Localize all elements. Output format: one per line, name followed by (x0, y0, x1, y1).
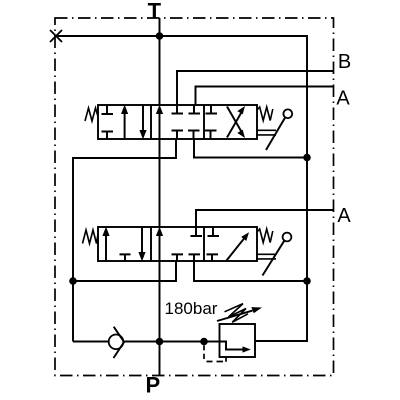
wire bottom line to check valve (73, 341, 109, 343)
wire port B (177, 71, 334, 105)
valve V2 box2 open-center up arrow (156, 227, 163, 261)
svg-text:180bar: 180bar (165, 299, 218, 318)
svg-text:B: B (338, 51, 351, 73)
wire check valve to relief inlet (124, 341, 220, 343)
relief valve RV1 body (220, 324, 256, 357)
valve V1 lever bracket (256, 130, 276, 135)
valve V1 box1 blocked port top (102, 105, 114, 114)
valve V1 spring left (85, 108, 98, 121)
plugged port X symbol on border (50, 30, 62, 42)
valve V2 box3 blocked port bottom (207, 254, 219, 261)
valve V2 box1 blocked port bottom (120, 254, 131, 261)
wire T header to X and right gallery (56, 36, 307, 341)
valve V2 lever (263, 233, 292, 276)
valve V2 box1 down arrow (138, 227, 145, 261)
valve V2 box2 blocked ports bottom (172, 254, 201, 261)
junction dot supply bottom (156, 338, 164, 346)
enclosure border (dash-dot) (55, 18, 334, 376)
valve V2 box1 up arrow (102, 227, 109, 261)
valve V1 box2 open-center up arrow (156, 105, 163, 139)
junction dot right gallery upper (303, 154, 311, 162)
relief valve pilot line (dashed) (204, 345, 226, 362)
valve V1 box3 crossed arrows (227, 106, 245, 138)
wire supply V2 down to P (159, 261, 161, 376)
valve V2 body (98, 227, 257, 261)
relief valve internal arrow (220, 342, 251, 353)
valve V2 box3 diagonal arrow (227, 232, 250, 260)
wire V1 bottom right to gallery (194, 139, 307, 158)
valve V1 box3 blocked port bottom (205, 131, 217, 140)
valve V2 lever bracket (256, 254, 276, 259)
wire V2 bottom right to gallery (194, 261, 307, 281)
junction dot T (156, 32, 164, 40)
wire V1 bottom left carryover (73, 139, 176, 342)
valve V1 box2 blocked ports top (172, 105, 201, 114)
junction dot pilot tap (200, 338, 208, 346)
junction dot left gallery (69, 277, 77, 285)
wire port A lower (196, 210, 334, 227)
svg-text:A: A (337, 205, 351, 227)
valve V1 box2 blocked ports bottom (172, 131, 200, 140)
valve V1 body (98, 105, 257, 139)
relief valve adjustable spring (217, 304, 262, 323)
valve V1 box1 up arrow (121, 105, 128, 139)
valve V2 box3 blocked port top (208, 227, 220, 236)
valve V2 spring right (257, 229, 273, 243)
check valve CV1 (109, 327, 124, 358)
valve V1 box3 blocked port top (206, 105, 218, 114)
valve V1 box1 down arrow (139, 105, 146, 139)
valve V1 spring right (257, 107, 273, 121)
junction dot right gallery lower (303, 277, 311, 285)
wire supply V1 to V2 (159, 139, 161, 227)
wire port A upper (196, 87, 334, 106)
wire V2 bottom left (73, 261, 176, 281)
valve V2 spring left (83, 230, 99, 244)
svg-text:A: A (336, 88, 350, 110)
valve V2 box2 blocked port top (191, 227, 203, 236)
svg-text:P: P (145, 373, 160, 398)
valve V1 box1 blocked port bottom (102, 132, 114, 140)
wire T down to valve V1 (159, 18, 161, 105)
valve V1 lever (266, 109, 292, 150)
